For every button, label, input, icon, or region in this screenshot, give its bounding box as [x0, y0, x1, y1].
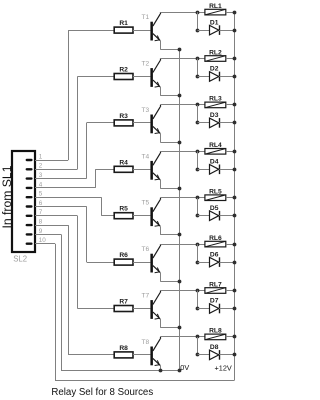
diode D3 [210, 118, 219, 128]
wire D3 cathode [219, 122, 234, 124]
diode D6 [210, 257, 219, 267]
connector pin 8 stub [26, 224, 33, 226]
wire RL5/D5 left link [197, 198, 199, 216]
connector SL2 body [12, 151, 35, 252]
wire RL6/D6 left link [197, 244, 199, 262]
+12V rail [234, 12, 236, 380]
wire D8 anode [198, 354, 210, 356]
T4 emitter arrow [155, 175, 160, 180]
node RL5 left junction [196, 196, 200, 200]
wire D7 cathode [219, 308, 234, 310]
T7 emitter arrow [155, 314, 160, 319]
node D2 right junction [233, 75, 237, 79]
transistor T4 [150, 161, 153, 180]
node RL1 left junction [196, 11, 200, 15]
svg-text:T3: T3 [142, 107, 150, 114]
wire RL1/D1 left link [197, 12, 199, 30]
resistor R7 [114, 306, 133, 312]
svg-text:RL7: RL7 [209, 281, 222, 288]
wire D6 cathode [219, 262, 234, 264]
wire T2 collector to RL2 [160, 58, 205, 60]
node D6 right junction [233, 261, 237, 265]
svg-text:D2: D2 [210, 66, 219, 73]
svg-text:T8: T8 [142, 339, 150, 346]
wire D4 anode [198, 169, 210, 171]
wire T8 emitter to 0V wire [160, 365, 162, 371]
connector pin 4 stub [26, 187, 33, 189]
wire T1 collector to RL1 [160, 12, 205, 14]
svg-text:3: 3 [39, 172, 43, 179]
node RL5 right junction [233, 196, 237, 200]
resistor R2 [114, 74, 133, 80]
node RL3 right junction [233, 103, 237, 107]
node D7 left junction [196, 307, 200, 311]
wire R2 to T2 base [133, 76, 150, 78]
wire T3 collector to RL3 [160, 104, 205, 106]
connector pin 5 stub [26, 196, 33, 198]
svg-text:T6: T6 [142, 246, 150, 253]
node 0V end dot [178, 369, 182, 373]
node emitter junction 1 [178, 48, 182, 52]
wire T1 emitter to 0V rail [160, 41, 162, 50]
svg-text:R1: R1 [119, 20, 128, 27]
node RL7 right junction [233, 289, 237, 293]
node D3 right junction [233, 121, 237, 125]
relay RL8 [205, 334, 226, 340]
wire D1 anode [198, 30, 210, 32]
T3 collector [153, 107, 160, 119]
svg-text:T7: T7 [142, 293, 150, 300]
node RL7 left junction [196, 289, 200, 293]
T8 emitter arrow [155, 360, 160, 365]
wire T2 emitter to 0V rail [160, 87, 162, 96]
wire RL7 to +12V rail [226, 290, 235, 292]
connector pin 1 stub [26, 159, 33, 161]
T7 collector [153, 293, 160, 305]
resistor R8 [114, 352, 133, 358]
wire pin 1 to R1 [35, 160, 68, 162]
svg-text:D4: D4 [210, 159, 219, 166]
wire D2 anode [198, 76, 210, 78]
node D6 left junction [196, 261, 200, 265]
svg-text:RL6: RL6 [209, 235, 222, 242]
transistor T3 [150, 115, 153, 134]
T8 collector [153, 339, 160, 351]
svg-text:T5: T5 [142, 200, 150, 207]
wire RL2/D2 left link [197, 59, 199, 77]
transistor T7 [150, 300, 153, 319]
node emitter junction 7 [178, 326, 182, 330]
node D8 left junction [196, 353, 200, 357]
node D7 right junction [233, 307, 237, 311]
wire D7 anode [198, 308, 210, 310]
relay RL4 [205, 149, 226, 155]
connector pin 9 stub [26, 233, 33, 235]
node D1 left junction [196, 29, 200, 33]
node RL1 right junction [233, 11, 237, 15]
node D4 left junction [196, 168, 200, 172]
relay RL6 [205, 241, 226, 247]
svg-text:8: 8 [39, 219, 43, 226]
relay RL5 [205, 195, 226, 201]
transistor T2 [150, 68, 153, 87]
wire RL7/D7 left link [197, 291, 199, 309]
diode D7 [210, 304, 219, 314]
wire pin 6 to R6 [35, 206, 87, 208]
node RL2 left junction [196, 57, 200, 61]
svg-text:R8: R8 [119, 345, 128, 352]
T5 emitter arrow [155, 221, 160, 226]
wire T3 emitter to 0V rail [160, 133, 162, 142]
wire R1 to T1 base [133, 30, 150, 32]
T1 emitter arrow [155, 36, 160, 41]
wire R6 to T6 base [133, 262, 150, 264]
wire R8 to T8 base [133, 354, 150, 356]
svg-text:T2: T2 [142, 61, 150, 68]
node RL8 left junction [196, 335, 200, 339]
T2 emitter [153, 80, 160, 87]
wire pin 3 to R3 [35, 178, 87, 180]
node emitter junction 6 [178, 280, 182, 284]
svg-text:R6: R6 [119, 252, 128, 259]
svg-text:0V: 0V [180, 363, 189, 372]
T7 emitter [153, 312, 160, 319]
T1 collector [153, 14, 160, 26]
resistor R5 [114, 213, 133, 219]
wire R5 to T5 base [133, 215, 150, 217]
resistor R3 [114, 120, 133, 126]
node emitter junction 3 [178, 141, 182, 145]
transistor T1 [150, 22, 153, 41]
wire RL4/D4 left link [197, 151, 199, 169]
wire RL4 to +12V rail [226, 151, 235, 153]
svg-text:RL8: RL8 [209, 328, 222, 335]
T1 emitter [153, 34, 160, 41]
node RL6 left junction [196, 243, 200, 247]
node D8 right junction [233, 353, 237, 357]
svg-text:RL2: RL2 [209, 49, 222, 56]
T3 emitter arrow [155, 128, 160, 133]
node D2 left junction [196, 75, 200, 79]
wire T4 emitter to 0V rail [160, 180, 162, 189]
wire T7 emitter to 0V rail [160, 319, 162, 328]
0V rail [179, 49, 181, 371]
svg-text:9: 9 [39, 228, 43, 235]
node RL6 right junction [233, 243, 237, 247]
wire T8 collector to RL8 [160, 336, 205, 338]
diode D2 [210, 72, 219, 82]
svg-text:D1: D1 [210, 19, 219, 26]
wire RL3 to +12V rail [226, 104, 235, 106]
wire D1 cathode [219, 30, 234, 32]
svg-text:RL4: RL4 [209, 142, 222, 149]
T2 emitter arrow [155, 82, 160, 87]
wire RL8 to +12V rail [226, 336, 235, 338]
wire R4 to T4 base [133, 169, 150, 171]
node RL2 right junction [233, 57, 237, 61]
svg-text:D7: D7 [210, 298, 219, 305]
svg-text:SL2: SL2 [13, 254, 27, 263]
T6 emitter [153, 266, 160, 273]
wire D8 cathode [219, 354, 234, 356]
svg-text:R4: R4 [119, 159, 128, 166]
diode D4 [210, 165, 219, 175]
wire pin 7 to R7 [35, 215, 77, 217]
wire D3 anode [198, 122, 210, 124]
svg-text:RL5: RL5 [209, 189, 222, 196]
relay RL3 [205, 102, 226, 108]
diode D1 [210, 25, 219, 35]
resistor R1 [114, 27, 133, 33]
node T8 emitter junction [159, 369, 163, 373]
resistor R6 [114, 259, 133, 265]
wire pin 4 to R4 [35, 187, 95, 189]
T5 collector [153, 200, 160, 212]
wire pin 9 to 0V rail [35, 234, 61, 236]
svg-text:D8: D8 [210, 344, 219, 351]
wire T6 collector to RL6 [160, 244, 205, 246]
T4 emitter [153, 173, 160, 180]
transistor T6 [150, 254, 153, 273]
node D3 left junction [196, 121, 200, 125]
relay RL1 [205, 9, 226, 15]
node D1 right junction [233, 29, 237, 33]
node D5 left junction [196, 214, 200, 218]
svg-text:RL3: RL3 [209, 96, 222, 103]
node D4 right junction [233, 168, 237, 172]
svg-text:T4: T4 [142, 153, 150, 160]
wire T7 collector to RL7 [160, 290, 205, 292]
connector pin 10 stub [26, 243, 33, 245]
node D5 right junction [233, 214, 237, 218]
relay RL7 [205, 288, 226, 294]
wire D5 cathode [219, 215, 234, 217]
svg-text:D5: D5 [210, 205, 219, 212]
wire pin 2 to R2 [35, 169, 77, 171]
connector pin 2 stub [26, 168, 33, 170]
svg-text:R3: R3 [119, 113, 128, 120]
transistor T8 [150, 347, 153, 366]
wire RL5 to +12V rail [226, 197, 235, 199]
svg-text:Relay Sel for 8 Sources: Relay Sel for 8 Sources [51, 387, 153, 398]
svg-text:R7: R7 [119, 299, 128, 306]
wire T5 emitter to 0V rail [160, 226, 162, 235]
T6 collector [153, 246, 160, 258]
node emitter junction 5 [178, 233, 182, 237]
node RL4 left junction [196, 150, 200, 154]
svg-text:2: 2 [39, 163, 43, 170]
relay RL2 [205, 56, 226, 62]
diode D5 [210, 211, 219, 221]
svg-text:1: 1 [39, 153, 43, 160]
svg-text:6: 6 [39, 200, 43, 207]
wire RL8/D8 left link [197, 337, 199, 355]
diode D8 [210, 350, 219, 360]
svg-text:D3: D3 [210, 112, 219, 119]
wire D4 cathode [219, 169, 234, 171]
connector pin 3 stub [26, 177, 33, 179]
wire T5 collector to RL5 [160, 197, 205, 199]
transistor T5 [150, 207, 153, 226]
wire RL6 to +12V rail [226, 244, 235, 246]
wire RL3/D3 left link [197, 105, 199, 123]
node RL3 left junction [196, 103, 200, 107]
svg-text:+12V: +12V [215, 364, 232, 373]
wire D2 cathode [219, 76, 234, 78]
T5 emitter [153, 219, 160, 226]
wire pin 5 to R5 [35, 197, 101, 199]
svg-text:D6: D6 [210, 251, 219, 258]
wire pin 10 to +12V rail [35, 243, 55, 245]
T2 collector [153, 61, 160, 73]
node RL8 right junction [233, 335, 237, 339]
svg-text:RL1: RL1 [209, 3, 222, 10]
wire D5 anode [198, 215, 210, 217]
node emitter junction 4 [178, 187, 182, 191]
svg-text:R2: R2 [119, 67, 128, 74]
wire pin 8 to R8 [35, 225, 68, 227]
wire R7 to T7 base [133, 308, 150, 310]
T8 emitter [153, 358, 160, 365]
svg-text:R5: R5 [119, 206, 128, 213]
wire R3 to T3 base [133, 122, 150, 124]
connector pin 6 stub [26, 205, 33, 207]
wire T4 collector to RL4 [160, 151, 205, 153]
node emitter junction 2 [178, 94, 182, 98]
svg-text:T1: T1 [142, 14, 150, 21]
wire RL2 to +12V rail [226, 58, 235, 60]
resistor R4 [114, 166, 133, 172]
wire D6 anode [198, 262, 210, 264]
svg-text:In from SL1: In from SL1 [0, 165, 14, 228]
connector pin 7 stub [26, 215, 33, 217]
node RL4 right junction [233, 150, 237, 154]
T6 emitter arrow [155, 268, 160, 273]
svg-text:5: 5 [39, 191, 43, 198]
wire RL1 to +12V rail [226, 12, 235, 14]
T4 collector [153, 153, 160, 165]
T3 emitter [153, 126, 160, 133]
wire T6 emitter to 0V rail [160, 273, 162, 282]
